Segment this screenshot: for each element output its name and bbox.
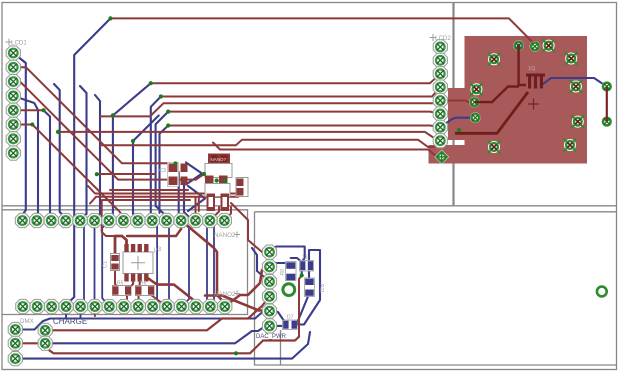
svg-text:DAC_PWR: DAC_PWR	[256, 334, 287, 340]
wire U3 loop top	[115, 236, 127, 256]
wire row2 pad6 stub	[94, 307, 96, 317]
pour bottom block	[429, 145, 469, 164]
wire blue R8 to L1	[291, 258, 302, 266]
wire blue row1-row2 x169	[167, 221, 169, 307]
wire blue LCD2 pad7 to pour	[440, 118, 475, 128]
wire via110 vertical	[44, 110, 52, 220]
wire fan t6	[58, 132, 440, 141]
svg-text:C1: C1	[103, 261, 109, 268]
wire U3 top rail	[127, 221, 181, 237]
wire LCD1 pad4 vertical	[13, 96, 38, 221]
svg-text:C3: C3	[159, 168, 166, 174]
wire LCD1 pad3 diagonal	[13, 82, 204, 180]
pour region	[429, 36, 588, 164]
wire R6 right to row2 pad11	[151, 290, 167, 306]
svg-text:DMX: DMX	[20, 318, 34, 325]
svg-text:µ3: µ3	[154, 246, 162, 253]
wire red gap drop to U3	[102, 200, 115, 236]
wire blue pour Q1 to right pad	[543, 78, 607, 87]
wire blue row1-row2 x95	[94, 221, 96, 307]
wire right pads vertical	[606, 87, 608, 122]
wire U3 pin to R6	[139, 277, 141, 290]
svg-text:R8: R8	[280, 269, 286, 276]
svg-text:R5: R5	[117, 281, 124, 287]
svg-text:NANO2: NANO2	[214, 232, 236, 239]
pour thermal pads	[470, 39, 584, 153]
header NANO2 row1 pads 1-15	[15, 213, 231, 227]
wire cluster stub second	[198, 197, 200, 211]
wire fan t4	[168, 112, 440, 114]
connector DMX pads 1-3	[8, 322, 22, 365]
wire blue top via diagonal	[66, 18, 110, 306]
capacitor C3 neighbor pads	[181, 164, 188, 186]
svg-text:1Q: 1Q	[528, 66, 536, 72]
wire blue row1-row2 x102	[102, 221, 109, 307]
resistor R11	[305, 278, 325, 297]
wire mid pair b	[90, 194, 242, 204]
wire blue loop big	[294, 250, 320, 325]
svg-text:R6: R6	[140, 281, 147, 287]
wire dac red vertical	[299, 275, 302, 336]
wire blue L1 to via	[301, 266, 303, 276]
wire blue dmx pad1 long	[15, 308, 269, 330]
wire LCD1 pad1 vertical	[13, 53, 25, 221]
wire U3 pin to R5	[127, 277, 133, 290]
wire fan t3	[100, 101, 475, 117]
wire LCD1 pad5 stub	[13, 109, 43, 111]
label LCD1	[6, 39, 13, 46]
wire R5 right to row2 pad8	[124, 290, 127, 306]
ic U3 pins	[124, 244, 148, 282]
ic NANO footprint upper	[205, 154, 232, 184]
slot edge	[280, 330, 282, 365]
wire blue row1-row2 x84	[80, 221, 84, 307]
pour main	[465, 36, 588, 164]
via dots	[30, 16, 461, 355]
wire blue row2 pad5 down	[80, 307, 82, 319]
wire row1 pad15 diag	[224, 207, 231, 221]
origin cross CHARGE	[42, 334, 49, 341]
wire row1 pad12 long diagonal	[181, 221, 225, 307]
wire blue row1-row2 x214	[210, 221, 214, 307]
svg-text:CHARGE: CHARGE	[53, 317, 87, 326]
wire fan t2	[161, 87, 440, 96]
capacitor C1	[103, 254, 120, 271]
wire mid horiz e	[103, 199, 190, 201]
wire blue v x112	[109, 83, 151, 220]
wire blue chevron 1	[186, 163, 202, 185]
wire blue v x86	[80, 86, 87, 221]
small component right of NANO	[236, 178, 248, 197]
svg-text:NANO2: NANO2	[214, 291, 236, 298]
pad free ring bottom-right	[597, 287, 607, 297]
wire charge pad1 long	[45, 296, 269, 330]
bottom-right module	[255, 212, 617, 365]
wire blue dac pad6 to D7	[270, 325, 285, 327]
wire mid pair a	[88, 186, 247, 194]
wire C1 to R5	[115, 268, 118, 288]
resistor R5	[113, 281, 132, 296]
wire blue R11 bottom diag	[297, 294, 310, 325]
top modules shared edge	[452, 3, 454, 206]
wire blue v x155	[156, 112, 169, 221]
svg-text:NANO?: NANO?	[211, 157, 227, 162]
pad ring cluster	[283, 284, 295, 296]
wire R6 left to row2 pad9	[137, 290, 139, 306]
wire blue row1-row2 x189	[181, 221, 189, 307]
svg-text:D7: D7	[287, 315, 294, 321]
inductor L1	[300, 255, 314, 272]
wire LCD1 pad2 diagonal	[13, 67, 174, 167]
wire nano to dac pad1	[231, 203, 270, 252]
capacitor C3	[159, 163, 179, 187]
wire LCD1 pad6 stub	[13, 124, 32, 126]
pour left extension	[448, 88, 468, 140]
wire blue v x150	[151, 97, 161, 221]
resistor R8	[280, 262, 296, 281]
wire pour B	[475, 87, 520, 103]
bottom-left module	[2, 210, 248, 315]
wire blue v x59	[54, 84, 66, 221]
label LCD2	[430, 34, 437, 41]
wire blue row2 pad4 down	[65, 307, 67, 319]
wire blue dmx pad3 long	[15, 332, 310, 359]
wire thick red into cluster	[205, 296, 270, 312]
header NANO2 row2 pads 1-15	[16, 299, 232, 313]
modules bottom edge	[2, 205, 617, 207]
wire blue row1-row2 x207	[207, 221, 210, 307]
wire blue dac pad3 hook	[252, 248, 270, 282]
wire blue v x100	[95, 95, 101, 221]
wire mid horiz d	[110, 189, 188, 191]
wire fan t7	[100, 140, 434, 147]
wire pour A	[519, 46, 526, 85]
wire blue v x138	[133, 116, 159, 221]
transistor Q1 in pour	[526, 66, 545, 89]
wire fan t5	[168, 126, 440, 128]
wire cluster stub to row1 pad13	[195, 198, 197, 221]
ic U3 body	[123, 252, 153, 274]
wire mid horiz c	[97, 173, 155, 175]
wire blue dac pad5 to D7	[270, 311, 285, 322]
svg-text:13: 13	[302, 255, 308, 261]
wire pour C	[455, 92, 528, 133]
connector DAC_PWR pads 1-6	[262, 245, 276, 333]
diode D7	[283, 315, 298, 330]
wire cluster to pour pad9	[213, 143, 442, 157]
wire blue row1-row2 x157	[152, 221, 157, 307]
wire via124 diagonal to row1 pad8	[32, 125, 123, 221]
svg-text:R11: R11	[318, 284, 324, 293]
wire blue v x184	[184, 184, 196, 221]
connector CHARGE pads 1-2	[38, 323, 52, 350]
resistor R6	[136, 281, 155, 296]
wire blue R11 top	[308, 266, 310, 282]
pads right of pour	[602, 81, 613, 127]
wire row2 pad15 to dac pad2	[225, 267, 270, 307]
wire fan t1	[151, 74, 441, 84]
connector LCD1 pads 1-8	[6, 46, 20, 160]
wire row1 pad14 diag	[210, 207, 219, 221]
wire top long red	[111, 18, 535, 46]
pour ring pads	[469, 40, 540, 123]
connector LCD2 pads 1-9	[433, 40, 449, 164]
origin cross in pour	[528, 99, 539, 110]
wire blue chevron 2	[188, 186, 205, 211]
svg-text:LCD1: LCD1	[11, 40, 27, 47]
ic NANO footprint lower	[205, 184, 230, 212]
wire blue pad1 to L1 top rail	[270, 247, 305, 266]
wire dmx pad2 long	[15, 337, 299, 354]
wire blue dac cluster top	[270, 263, 288, 267]
wire blue v x178	[179, 172, 181, 221]
wire blue charge pad2 long	[45, 326, 269, 343]
wire U3 pin4 diagonal	[146, 277, 200, 307]
wire blue row2 pad4b down	[65, 307, 67, 319]
svg-text:LCD2: LCD2	[435, 35, 451, 42]
pour dark traces	[455, 46, 528, 134]
wire blue v x159	[160, 126, 169, 214]
